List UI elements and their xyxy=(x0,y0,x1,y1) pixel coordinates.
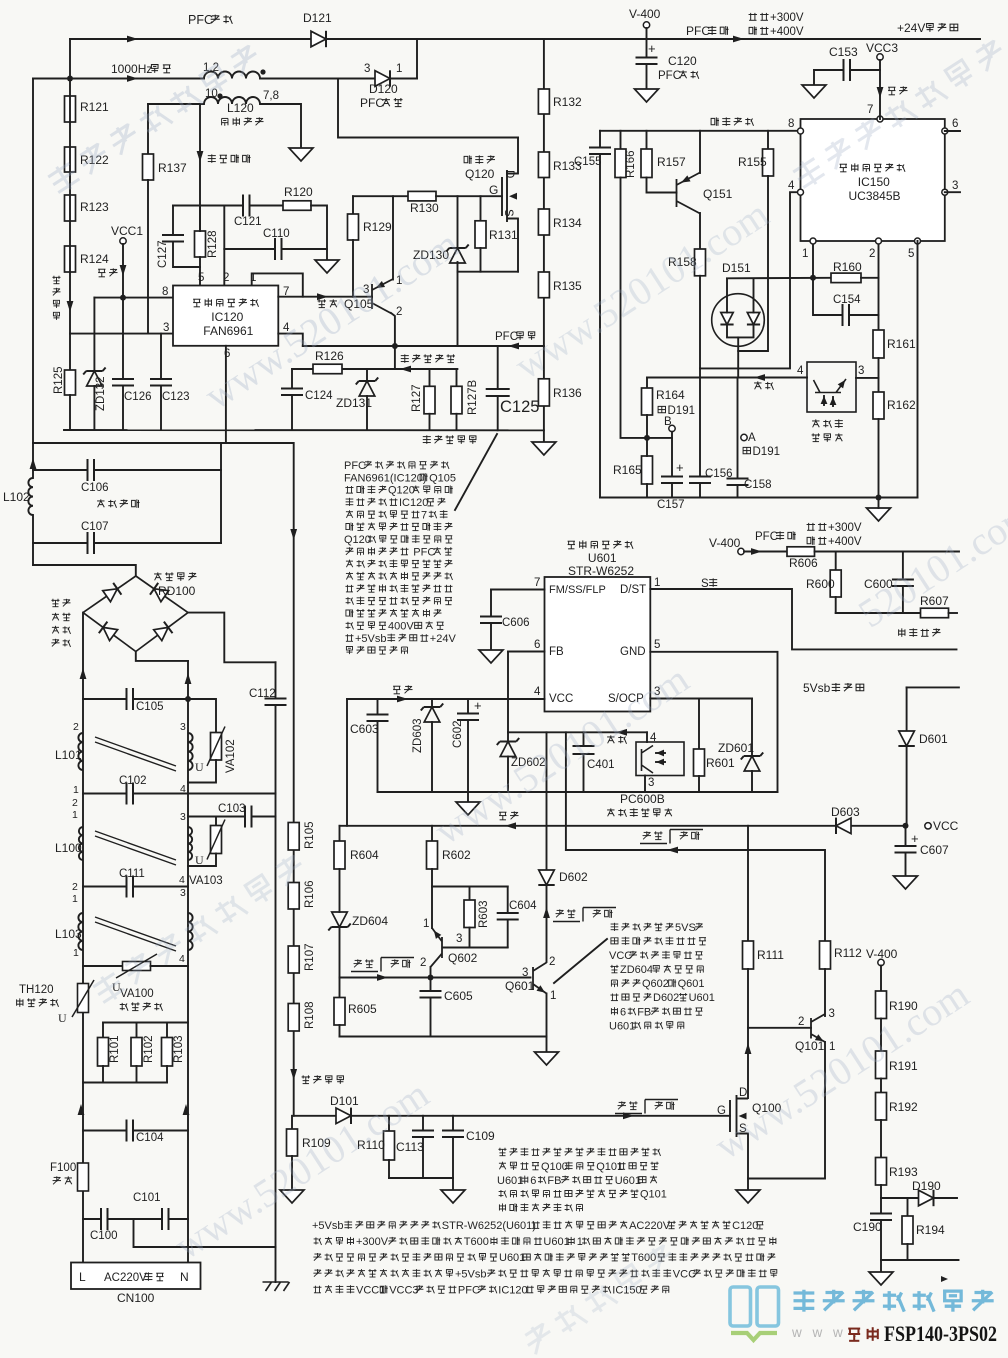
wire R605 top xyxy=(339,978,341,998)
svg-text:C100: C100 xyxy=(90,1230,118,1242)
wire IC150 pin1 xyxy=(812,241,814,278)
wire zero-cross detect xyxy=(199,104,201,231)
wire R160 line xyxy=(727,277,831,280)
junction pin1/R160 xyxy=(810,275,816,281)
inductor L120 winding 7-8 xyxy=(204,97,260,104)
svg-text:+5Vsb: +5Vsb xyxy=(312,1220,344,1232)
wire R158 bottom xyxy=(699,276,701,369)
arrow N rail up xyxy=(183,1104,190,1115)
callout line overvoltage xyxy=(554,939,607,983)
svg-text:+5Vsb: +5Vsb xyxy=(355,633,387,645)
svg-text:2: 2 xyxy=(72,797,78,809)
svg-text:C106: C106 xyxy=(81,482,109,494)
svg-text:R137: R137 xyxy=(158,161,187,175)
resistor R604 xyxy=(334,841,345,869)
svg-text:PFC: PFC xyxy=(658,70,681,82)
wire L rail xyxy=(82,613,84,1263)
arrow regulation xyxy=(754,374,765,381)
wire VCC rail corner xyxy=(346,699,348,826)
svg-text:+5Vsb: +5Vsb xyxy=(455,1268,487,1280)
svg-text:R605: R605 xyxy=(348,1002,377,1016)
zener ZD604 xyxy=(328,912,350,931)
wire C125 top xyxy=(497,346,499,389)
wire source to sample line xyxy=(457,272,459,346)
svg-text:R120: R120 xyxy=(284,185,313,199)
label VA100 name xyxy=(120,1003,128,1011)
svg-text:R192: R192 xyxy=(889,1100,918,1114)
svg-text:3: 3 xyxy=(180,887,186,899)
label R103 xyxy=(173,1036,185,1064)
svg-text:VCC: VCC xyxy=(609,950,632,962)
transistor Q602 xyxy=(431,928,443,967)
label mains sampling b xyxy=(302,1075,310,1083)
svg-text:3: 3 xyxy=(829,1008,835,1020)
svg-text:C101: C101 xyxy=(133,1192,161,1204)
wire 300V rail xyxy=(815,551,960,553)
resistor R135 xyxy=(538,272,549,298)
label filter caps xyxy=(97,499,104,507)
svg-text:D151: D151 xyxy=(722,261,751,275)
wire left rail xyxy=(32,79,34,444)
label R603 xyxy=(478,901,490,929)
svg-text:R111: R111 xyxy=(757,948,784,962)
wire mid tap to chassis xyxy=(134,1219,276,1247)
svg-text:5: 5 xyxy=(654,639,660,651)
ground 5vsb rail xyxy=(456,802,480,815)
wire R102 col xyxy=(136,1023,138,1038)
wire IC150 pin6 stub xyxy=(945,130,960,132)
varistor VA102 xyxy=(211,733,222,761)
wire N rail xyxy=(187,661,189,1263)
svg-text:7: 7 xyxy=(421,509,427,521)
resistor R166 xyxy=(615,149,626,178)
svg-text:+400V: +400V xyxy=(770,26,804,38)
svg-text:4: 4 xyxy=(797,365,804,377)
wire bridge plus to L102 xyxy=(33,565,136,576)
wire R131 top xyxy=(480,196,482,221)
inductor L103 left xyxy=(78,913,83,950)
junction C105/VA102 xyxy=(185,696,191,702)
svg-text:C158: C158 xyxy=(744,479,772,491)
capacitor C105 xyxy=(127,688,134,710)
svg-text:R603: R603 xyxy=(478,901,490,929)
label regulation 2 xyxy=(607,735,614,743)
capacitor C155 xyxy=(589,148,611,155)
capacitor C154 xyxy=(843,304,850,326)
resistor R108 xyxy=(288,1004,299,1032)
resistor R193 xyxy=(876,1158,887,1186)
capacitor C110 xyxy=(275,238,282,260)
label mains sampling 3 xyxy=(53,300,59,308)
wire U601 pin5 GND xyxy=(650,652,777,792)
svg-text:R162: R162 xyxy=(887,398,916,412)
terminal VCC3 xyxy=(877,54,883,60)
svg-text:PFC: PFC xyxy=(188,13,213,27)
svg-text:VA100: VA100 xyxy=(120,988,154,1000)
label C127 xyxy=(157,241,169,269)
label to D191 B xyxy=(658,406,665,412)
svg-text:R130: R130 xyxy=(410,201,439,215)
wire R120 to gnd corner xyxy=(311,206,327,261)
svg-text:5: 5 xyxy=(198,272,204,284)
resistor R124 xyxy=(65,246,76,272)
svg-text:VA102: VA102 xyxy=(225,739,237,773)
resistor R192 xyxy=(876,1093,887,1121)
svg-text:FM/SS/FLP: FM/SS/FLP xyxy=(549,584,606,596)
wire ZD604 bottom xyxy=(339,927,341,978)
svg-text:V-400: V-400 xyxy=(629,7,661,21)
polarity dot winding2 xyxy=(217,93,222,98)
svg-text:R123: R123 xyxy=(80,200,109,214)
inductor L101 left xyxy=(78,733,83,770)
resistor R111 xyxy=(743,941,754,969)
svg-text:4: 4 xyxy=(179,874,185,886)
label opto name 1 xyxy=(812,419,819,427)
wire Q602 emitter xyxy=(430,967,432,978)
wire C103 line xyxy=(188,816,245,818)
svg-text:L: L xyxy=(79,1270,86,1284)
arrow vcc supply xyxy=(397,696,408,703)
svg-text:U: U xyxy=(58,1011,67,1025)
wire C127 top xyxy=(172,206,174,236)
label mains rect 2 xyxy=(52,613,59,621)
svg-text:L101: L101 xyxy=(55,748,82,762)
core L100 xyxy=(95,831,176,865)
terminal A xyxy=(741,434,747,440)
svg-text:U601: U601 xyxy=(543,1236,569,1248)
wire V400c down xyxy=(880,966,882,992)
arrow VCC1 supply xyxy=(120,265,127,276)
svg-text:U601: U601 xyxy=(609,1020,635,1032)
arrow down mains sample xyxy=(290,529,297,540)
svg-text:D603: D603 xyxy=(831,805,860,819)
svg-text:Q101: Q101 xyxy=(640,1189,667,1201)
svg-text:+: + xyxy=(474,698,482,713)
arrow Q151 collector xyxy=(679,175,690,185)
svg-text:C110: C110 xyxy=(263,228,290,240)
wire ZD130 bottom xyxy=(457,262,459,272)
svg-text:3: 3 xyxy=(180,811,186,823)
diode D101 xyxy=(336,1108,351,1124)
resistor R600 xyxy=(830,570,841,597)
svg-text:D190: D190 xyxy=(912,1179,941,1193)
wire IC150 ground rail xyxy=(600,497,918,499)
wire R607 stub xyxy=(949,612,958,614)
transistor Q100 MOSFET xyxy=(730,1095,748,1137)
wire R127B bottom xyxy=(456,414,458,430)
svg-text:V-400: V-400 xyxy=(709,536,741,550)
arrow pc600b light2 xyxy=(656,759,664,766)
resistor R129 xyxy=(348,214,359,240)
wire R127 top xyxy=(429,369,431,386)
terminal B xyxy=(669,425,675,431)
svg-text:1: 1 xyxy=(72,809,78,821)
svg-text:PFC: PFC xyxy=(686,24,710,38)
zener ZD130 xyxy=(446,245,468,264)
svg-text:C125: C125 xyxy=(500,398,539,416)
svg-text:5: 5 xyxy=(908,248,914,260)
wire C600 bottom xyxy=(902,586,904,613)
svg-text:U601: U601 xyxy=(497,1175,523,1187)
wire U601 pin7 xyxy=(491,589,545,591)
wire D120 to corner xyxy=(390,78,417,80)
svg-text:R132: R132 xyxy=(553,95,582,109)
svg-text:FB: FB xyxy=(637,1006,651,1018)
wire C607 bottom xyxy=(905,853,907,877)
capacitor C107 xyxy=(88,532,95,554)
wire C101 right xyxy=(169,1218,189,1220)
wire pin2 to R161 xyxy=(878,329,880,331)
fuse F100 xyxy=(78,1163,89,1191)
wire C158 top xyxy=(737,378,739,479)
svg-text:C121: C121 xyxy=(234,216,262,228)
wire R110 top xyxy=(388,1116,390,1131)
wire U601 pin4 VCC rail xyxy=(347,698,545,700)
svg-text:C606: C606 xyxy=(502,617,530,629)
svg-text:TH120: TH120 xyxy=(19,984,54,996)
svg-text:R103: R103 xyxy=(173,1036,185,1064)
wire VCC rail 2 xyxy=(340,825,906,827)
watermark url right xyxy=(850,490,1008,636)
capacitor C603 xyxy=(367,715,389,722)
arrow pc600b light1 xyxy=(656,750,664,757)
arrow Q105 collector xyxy=(374,281,385,291)
wire D602 column top xyxy=(546,732,548,872)
label to D191 A xyxy=(743,447,750,453)
svg-text:PFC: PFC xyxy=(360,96,384,110)
wire Q151 emitter xyxy=(699,213,701,249)
svg-text:7,8: 7,8 xyxy=(263,90,279,102)
wire VA100 line xyxy=(83,965,123,967)
capacitor C104 xyxy=(127,1120,134,1142)
chassis ground main xyxy=(263,1282,290,1291)
wire IC120 pin6 xyxy=(225,346,227,443)
label IC150 part xyxy=(849,189,901,203)
wire pc600b light1 xyxy=(656,752,665,754)
svg-text:VCC1: VCC1 xyxy=(111,224,143,238)
wire C107 left xyxy=(33,542,88,544)
watermark jiadian left-mid xyxy=(91,852,308,1006)
svg-text:1: 1 xyxy=(396,63,402,75)
svg-text:R106: R106 xyxy=(304,881,316,909)
svg-text:2: 2 xyxy=(73,721,79,733)
pin circle IC150 pin 4 xyxy=(798,189,804,195)
label mains rect 3 xyxy=(52,626,59,634)
resistor R125 xyxy=(65,370,76,395)
resistor R134 xyxy=(538,209,549,235)
capacitor C190 xyxy=(870,1214,892,1221)
diode D120 PFC rectifier xyxy=(375,70,390,86)
wire C603 top xyxy=(377,699,379,715)
svg-text:C103: C103 xyxy=(218,803,246,815)
svg-text:+400V: +400V xyxy=(828,536,862,548)
svg-text:IC120: IC120 xyxy=(211,310,243,324)
zener ZD602 xyxy=(497,738,519,757)
wire R164 bottom xyxy=(646,415,648,438)
label R107 xyxy=(304,944,316,972)
wire gnd stem 5vsb xyxy=(467,792,469,802)
wire IC120 pin8 xyxy=(94,297,173,299)
svg-text:C102: C102 xyxy=(119,775,147,787)
svg-text:R107: R107 xyxy=(304,944,316,972)
wire R137 bottom xyxy=(147,180,149,334)
ground C190 xyxy=(869,1272,893,1285)
wire R604 to ZD604 xyxy=(339,869,341,912)
wire R101 col xyxy=(102,1023,104,1038)
wire R604 top xyxy=(339,826,341,841)
wire C606 top xyxy=(490,590,492,617)
wire VA100 right xyxy=(151,965,189,967)
wire R103 bot xyxy=(166,1066,168,1083)
svg-text:C607: C607 xyxy=(920,843,949,857)
svg-text:C602: C602 xyxy=(452,721,464,749)
resistor R103 xyxy=(162,1038,173,1067)
wire R194 top xyxy=(907,1198,909,1216)
label storage inductor xyxy=(222,118,228,125)
resistor R123 xyxy=(65,195,76,221)
resistor R602 xyxy=(427,841,438,869)
wire R192-R193 xyxy=(880,1120,882,1158)
ground C109 xyxy=(441,1190,465,1203)
wire IC120 pin2 column xyxy=(223,206,225,286)
wire D120 out to bus xyxy=(416,39,418,79)
wire gnd stem xyxy=(878,498,880,509)
label R106 xyxy=(304,881,316,909)
svg-text:N: N xyxy=(180,1270,189,1284)
wire R164 top xyxy=(646,378,648,389)
arrow Q101 up xyxy=(745,1043,752,1054)
ground C120 xyxy=(635,89,659,102)
svg-text:7: 7 xyxy=(867,104,873,116)
svg-text:3: 3 xyxy=(648,777,654,789)
arrow L102 xyxy=(30,458,37,469)
wire B to C157 xyxy=(671,432,673,477)
resistor R194 xyxy=(902,1216,913,1244)
arrow zero-cross xyxy=(197,151,204,162)
wire R121-R124 chain xyxy=(69,79,71,371)
resistor R606 xyxy=(787,547,815,557)
svg-text:1: 1 xyxy=(72,893,78,905)
svg-text:VCC: VCC xyxy=(549,693,573,705)
svg-text:C157: C157 xyxy=(657,499,685,511)
label ZD132 xyxy=(95,376,107,411)
wire D151 bottoms xyxy=(727,325,754,337)
svg-text:VCC3: VCC3 xyxy=(389,1284,418,1296)
svg-text:R102: R102 xyxy=(143,1036,155,1064)
resistor R136 xyxy=(538,379,549,406)
inductor L100 left xyxy=(79,827,83,860)
wire snubber line xyxy=(836,612,921,614)
capacitor C124 xyxy=(281,389,303,396)
wire VA103 bottom xyxy=(188,854,216,867)
wire C100-C101 xyxy=(108,1218,163,1220)
svg-text:ZD604: ZD604 xyxy=(620,964,653,976)
wire C602 top xyxy=(467,699,469,714)
wire C605 top xyxy=(430,978,432,992)
wire R603 top xyxy=(469,887,471,901)
svg-text:C155: C155 xyxy=(574,156,602,168)
capacitor C103 xyxy=(245,806,252,828)
svg-text:1: 1 xyxy=(577,1236,583,1248)
svg-text:8: 8 xyxy=(162,286,168,298)
svg-text:4: 4 xyxy=(534,686,541,698)
arrow VCC3 supply xyxy=(877,87,884,98)
wire reference voltage line xyxy=(600,130,801,132)
wire R158 to IC150 pin4 xyxy=(700,192,801,368)
bridge diode bottom-left xyxy=(99,622,118,641)
wire winding1 to D120 xyxy=(260,78,374,80)
wire C100 line xyxy=(83,1218,101,1220)
ground IC150 rail xyxy=(867,508,891,521)
svg-text:2: 2 xyxy=(223,272,229,284)
label U601 name xyxy=(588,551,617,565)
wire B junction line xyxy=(647,437,672,439)
diode D151 dual xyxy=(712,294,765,347)
wire IC150 pin3 stub xyxy=(945,191,960,193)
wire R102 bot xyxy=(136,1066,138,1083)
resistor R133 xyxy=(538,152,549,178)
svg-text:D602: D602 xyxy=(653,992,679,1004)
svg-text:Q602: Q602 xyxy=(642,978,669,990)
resistor R161 xyxy=(873,330,884,358)
wire PC600B pin4 xyxy=(646,732,648,742)
capacitor C100 xyxy=(101,1208,108,1230)
resistor R137 xyxy=(143,154,154,180)
wire C190 top xyxy=(880,1198,882,1214)
svg-text:5VS: 5VS xyxy=(675,922,696,934)
inductor L103 right xyxy=(188,913,193,950)
svg-text:Q120: Q120 xyxy=(344,534,371,546)
resistor R155 xyxy=(763,149,774,176)
label R166 xyxy=(625,151,637,179)
watermark url bottom-left xyxy=(166,1071,436,1268)
wire +400V top bus xyxy=(70,38,980,40)
inductor L102 xyxy=(28,478,33,515)
arrow opto light 2 xyxy=(830,397,837,405)
wire Q120 drain xyxy=(517,138,519,174)
wire V400b to R606 xyxy=(744,551,787,553)
wire Q151 collector xyxy=(699,131,701,173)
label IC120 name xyxy=(211,310,243,324)
svg-text:FB: FB xyxy=(549,646,564,658)
svg-text:Q105: Q105 xyxy=(429,472,456,484)
svg-text:R165: R165 xyxy=(613,463,642,477)
pin circle IC150 pin 2 xyxy=(876,238,882,244)
svg-text:R121: R121 xyxy=(80,100,109,114)
svg-text:D601: D601 xyxy=(919,732,948,746)
wire C105 right xyxy=(133,698,188,700)
svg-text:GND: GND xyxy=(620,646,646,658)
wire regulation line xyxy=(647,377,807,379)
svg-text:R600: R600 xyxy=(806,577,835,591)
svg-text:R105: R105 xyxy=(304,822,316,850)
svg-text:3: 3 xyxy=(952,180,958,192)
terminal VCC1 xyxy=(120,238,126,244)
diode D190 xyxy=(919,1190,934,1206)
wire C109 top xyxy=(452,1116,454,1131)
wire R130 to gate xyxy=(436,195,502,197)
svg-text:ZD603: ZD603 xyxy=(412,718,424,753)
wire C602 bottom xyxy=(467,720,469,792)
wire R155 bottom xyxy=(738,176,768,351)
arrow drive xyxy=(317,293,328,300)
svg-text:C123: C123 xyxy=(162,391,190,403)
label R127B xyxy=(467,380,479,415)
label snubber xyxy=(899,628,905,636)
svg-text:V-400: V-400 xyxy=(866,947,898,961)
wire R157 to Q151 base xyxy=(647,178,677,193)
watermark jiadian top-right xyxy=(791,37,1008,191)
